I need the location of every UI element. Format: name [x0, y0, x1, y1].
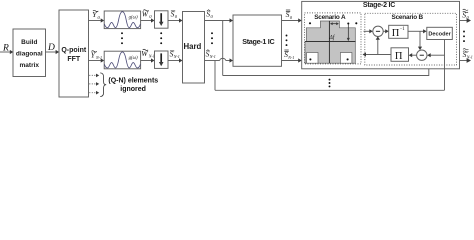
label S=N-1 — [284, 50, 294, 60]
svg-text:N-1: N-1 — [95, 55, 102, 60]
svg-text:Decoder: Decoder — [428, 32, 451, 38]
wire Hard to Stage-1 row0 — [205, 18, 234, 22]
wire feedback vertical V2 — [214, 61, 216, 91]
scenario A delta-f annotation — [328, 22, 349, 41]
dots between S= arrows — [286, 35, 288, 47]
label S^N-1 — [206, 50, 216, 60]
svg-text:g(ω): g(ω) — [129, 16, 138, 21]
svg-text:N-1: N-1 — [173, 54, 180, 59]
svg-text:g(ω): g(ω) — [129, 56, 138, 61]
svg-text:FFT: FFT — [67, 56, 81, 63]
wire inner feedback to V1 — [223, 69, 429, 76]
dots between feedback lines — [329, 79, 331, 88]
subtractor circle 1 — [373, 26, 383, 36]
svg-text:Scenario B: Scenario B — [392, 14, 424, 21]
dotted ignored outputs of FFT — [89, 74, 99, 95]
block Scenario A dashed — [305, 13, 362, 64]
output arrow rowN, label S~~N-1 — [460, 49, 473, 63]
svg-text:ignored: ignored — [120, 86, 146, 93]
wire filter to downsample row0, label W~0 — [141, 10, 155, 23]
svg-text:Stage-2 IC: Stage-2 IC — [363, 2, 395, 9]
wire Pi-inv to Decoder — [408, 29, 427, 33]
svg-text:Build: Build — [21, 39, 37, 46]
wire D arrow — [46, 50, 60, 54]
svg-text:(Q-N) elements: (Q-N) elements — [108, 77, 158, 84]
wire downsample to Hard row0, label S-0 — [168, 10, 183, 23]
wire Stage-1 to Stage-2 row0 — [282, 18, 302, 22]
label (Q-N) elements ignored — [108, 77, 158, 93]
wire Pi output left with feedback tap — [363, 36, 392, 56]
label S^0 — [206, 10, 213, 20]
dots between filter rows — [121, 32, 123, 44]
block Q-point FFT — [59, 10, 89, 97]
dots between downsamplers — [160, 32, 162, 44]
node R input label — [2, 44, 9, 54]
wire Hard to Stage-1 rowN with hop — [205, 58, 234, 62]
wire filter to downsample rowN, label W~N-1 — [141, 49, 155, 63]
curly brace — [100, 73, 106, 97]
block interleaver — [391, 48, 409, 62]
svg-text:Stage-1 IC: Stage-1 IC — [242, 37, 274, 46]
wire decoder output down — [444, 40, 446, 91]
svg-text:Scenario A: Scenario A — [314, 14, 346, 21]
wire FFT to filter rowN, label Y~N-1 — [89, 51, 105, 63]
wire into subtractor 2 from right — [427, 53, 444, 57]
svg-text:N-1: N-1 — [287, 55, 294, 60]
wire downsample to Hard rowN, label S-N-1 — [168, 50, 183, 63]
block Decoder — [427, 27, 453, 39]
wire FFT to filter row0, label Y~0 — [89, 10, 105, 22]
svg-text:D: D — [47, 43, 55, 53]
svg-text:diagonal: diagonal — [16, 51, 43, 58]
block interleaver inverse — [389, 25, 408, 39]
svg-text:Π: Π — [395, 51, 403, 62]
dots between S^ labels — [211, 32, 213, 44]
subtractor circle 2 — [417, 50, 427, 60]
block Build diagonal matrix — [13, 29, 46, 77]
wire R input arrow — [0, 50, 13, 54]
wire outer feedback to V2 — [215, 89, 445, 91]
svg-text:N-1: N-1 — [466, 55, 473, 60]
node D label — [47, 43, 55, 53]
svg-text:−1: −1 — [400, 27, 406, 32]
wire feedback vertical V1 — [222, 21, 224, 76]
output arrow row0, label S~~0 — [460, 9, 472, 23]
wire branch down into subtractor 2 — [418, 31, 422, 50]
block downsampler row0 — [155, 11, 169, 28]
block Hard decision — [183, 12, 205, 84]
scenario A spectra graphic — [305, 21, 357, 63]
svg-text:Q-point: Q-point — [61, 47, 87, 54]
block matched filter g(w) row0 — [104, 11, 140, 29]
svg-text:Π: Π — [392, 28, 400, 39]
svg-text:N-1: N-1 — [209, 54, 216, 59]
wire sub1 to Pi-inv — [383, 29, 389, 33]
svg-text:matrix: matrix — [20, 62, 40, 69]
label S=0 — [286, 10, 293, 20]
wire Stage-1 to Stage-2 rowN — [282, 58, 302, 62]
block matched filter g(w) rowN — [104, 51, 140, 69]
wire input into subtractor 1 — [364, 29, 373, 33]
block Scenario B dashed — [365, 13, 457, 65]
block Stage-2 IC — [302, 1, 460, 68]
dots between outputs — [463, 31, 465, 43]
block downsampler rowN — [155, 51, 169, 68]
wire sub2 to Pi — [409, 53, 417, 57]
block Stage-1 IC — [233, 15, 282, 66]
svg-text:N-1: N-1 — [148, 54, 155, 59]
svg-text:Hard: Hard — [184, 42, 202, 51]
